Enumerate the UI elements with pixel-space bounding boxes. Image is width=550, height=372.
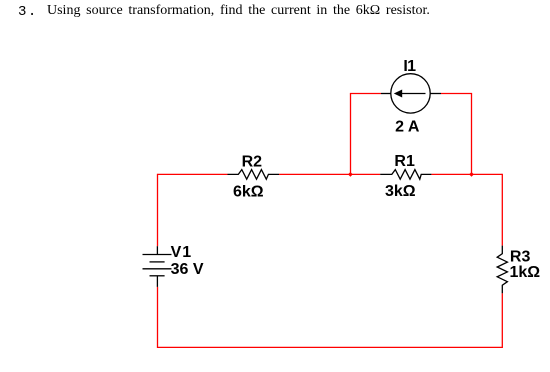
svg-text:I1: I1 <box>403 58 416 75</box>
wire: left vertical above V1 <box>157 174 159 246</box>
svg-text:2 A: 2 A <box>395 119 420 136</box>
V1 label <box>171 244 193 261</box>
I1 value 2 A <box>395 119 420 136</box>
wire: I1 loop left vertical <box>350 94 352 175</box>
svg-text:6kΩ: 6kΩ <box>233 184 264 201</box>
wire: I1 loop right vertical <box>471 94 473 175</box>
title text <box>0 0 1 1</box>
svg-text:R2: R2 <box>242 153 263 170</box>
R2 value 6kOhm <box>233 184 264 201</box>
wire: middle horizontal left of R2 <box>158 173 228 175</box>
svg-text:R1: R1 <box>394 153 415 170</box>
V1 value 36 V <box>171 261 204 278</box>
resistor R2 <box>228 170 280 180</box>
wire: right vertical above R3 <box>501 174 503 246</box>
wire: I1 loop top-right horizontal <box>441 93 472 95</box>
I1 label <box>403 58 416 75</box>
wire: I1 loop top-left horizontal <box>350 93 381 95</box>
junction node at I1 left leg <box>348 172 353 177</box>
R3 value 1kOhm <box>510 264 541 281</box>
svg-text:36 V: 36 V <box>171 261 204 278</box>
junction node at I1 right leg <box>469 172 474 177</box>
R1 label <box>394 153 415 170</box>
current source I1 <box>381 74 441 113</box>
resistor R3 <box>497 246 507 294</box>
svg-text:3kΩ: 3kΩ <box>385 183 416 200</box>
wire: bottom horizontal <box>158 346 503 348</box>
wire: middle horizontal between R2 and R1 <box>279 173 380 175</box>
svg-text:1kΩ: 1kΩ <box>510 264 541 281</box>
resistor R1 <box>380 170 431 180</box>
wire: left vertical below V1 <box>157 287 159 348</box>
voltage source V1 battery <box>143 246 172 287</box>
wire: middle horizontal right of R1 <box>431 173 502 175</box>
wire: right vertical below R3 <box>501 293 503 348</box>
svg-text:R3: R3 <box>510 248 531 265</box>
R3 label <box>510 248 531 265</box>
svg-text:V1: V1 <box>171 244 193 261</box>
R1 value 3kOhm <box>385 183 416 200</box>
R2 label <box>242 153 263 170</box>
